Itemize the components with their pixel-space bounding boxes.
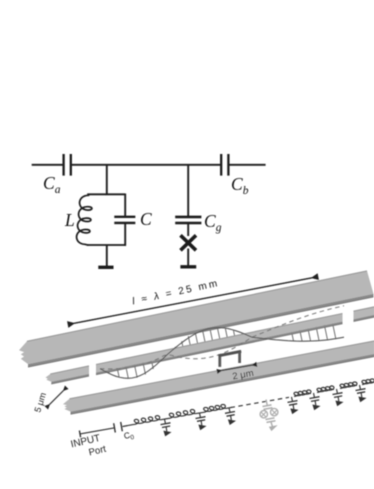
ladder inductor 2 [168, 410, 196, 419]
qubit circuit (faint SQUID) [266, 400, 267, 406]
ladder shunt capacitor 4 [292, 397, 293, 402]
ground (LC branch) [98, 266, 113, 269]
ladder inductor 5 [317, 386, 334, 393]
top ground plane strip [19, 271, 374, 364]
wire LC stem to ground [106, 245, 108, 267]
center conductor strip [96, 314, 343, 373]
ladder wire [123, 425, 134, 427]
capacitor Cg [175, 216, 201, 219]
ladder wire [226, 407, 232, 408]
ladder shunt capacitor 6 [337, 389, 338, 394]
input feed finger [46, 366, 90, 382]
ladder node wire [161, 419, 168, 420]
ladder inductor 6 [340, 382, 357, 389]
wire LC loop top [87, 193, 125, 195]
standing wave hatching [108, 367, 109, 373]
ladder inductor 4 [294, 390, 311, 396]
capacitor Cb [220, 154, 222, 176]
qubit (Cooper pair box) square [218, 351, 241, 356]
standing wave solid curve [100, 328, 344, 379]
wire node2 stem [187, 164, 189, 216]
svg-text:C: C [140, 209, 152, 229]
wire LC loop bottom [87, 244, 126, 246]
capacitor Ca [62, 154, 64, 176]
ladder inductor 1 [133, 416, 161, 425]
ladder input terminal [79, 431, 80, 438]
inductor L [77, 195, 92, 246]
bottom ground plane strip [63, 341, 374, 412]
ladder dashed break [231, 397, 290, 407]
wire C branch top [124, 194, 126, 216]
ladder shunt capacitor 7 [360, 385, 361, 390]
wire junction to ground [187, 249, 189, 266]
ladder wire [196, 412, 203, 413]
wire rail right [229, 164, 266, 166]
ladder shunt capacitor 1 [165, 419, 166, 424]
ground (Cg branch) [180, 265, 196, 268]
wire Cg to junction [187, 224, 189, 236]
ladder shunt capacitor 2 [200, 413, 201, 418]
ladder inductor 7 [362, 379, 374, 385]
wire rail mid [72, 164, 221, 166]
capacitor C [114, 216, 135, 218]
dimension arrow l=lambda=25mm [74, 278, 312, 324]
ladder shunt capacitor 3 [229, 408, 230, 413]
ladder shunt capacitor 5 [314, 393, 315, 398]
dimension arrow 5um [50, 391, 64, 405]
Josephson junction X [181, 235, 197, 250]
wire C branch bottom [124, 224, 126, 246]
ladder wire in [80, 428, 114, 434]
output feed finger [354, 307, 374, 319]
wire top rail left [32, 164, 63, 166]
dimension arrow 2um [222, 365, 253, 370]
standing wave dashed curve [100, 306, 344, 369]
ladder series capacitor C0 [114, 423, 116, 432]
svg-text:L: L [64, 210, 75, 230]
ladder inductor 3 [203, 404, 226, 412]
wire node1 stem [106, 164, 108, 195]
